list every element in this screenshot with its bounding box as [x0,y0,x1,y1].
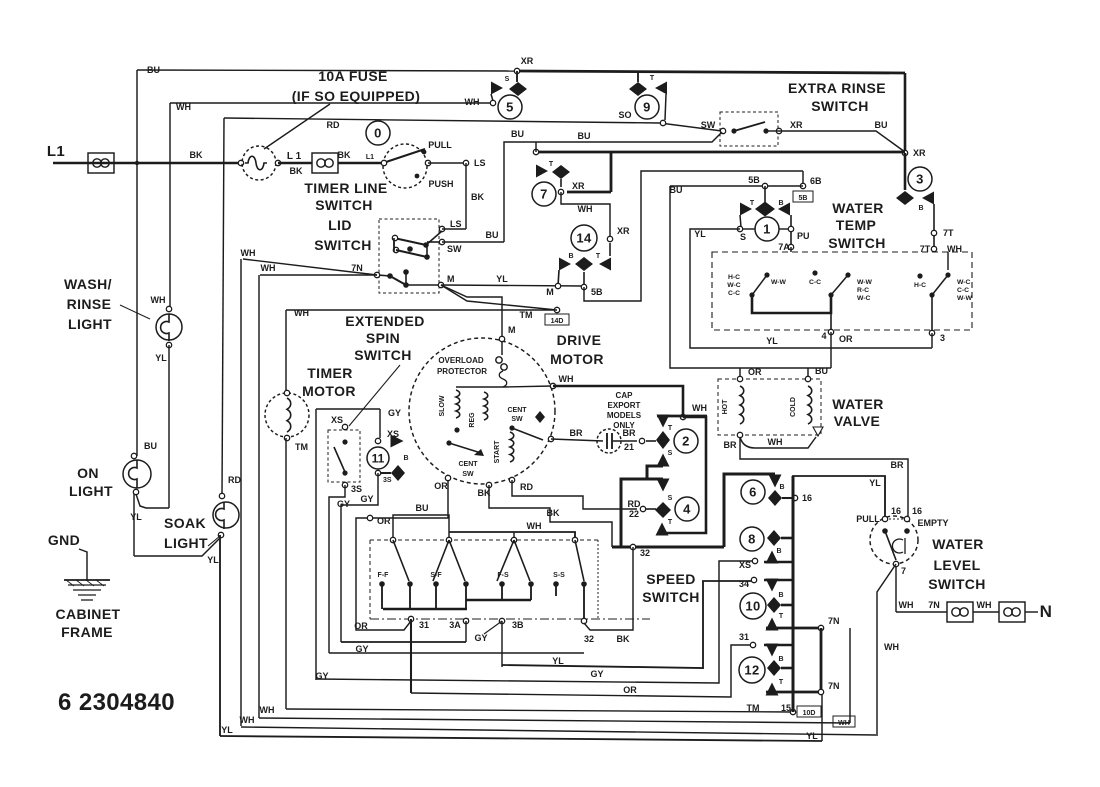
svg-text:T: T [750,200,755,207]
water valve box (dashed) [718,379,821,435]
svg-text:32: 32 [640,548,650,558]
water temp switch box (dashed) [712,252,972,330]
node XR extra rinse [776,128,781,133]
on light node bottom [133,489,138,494]
svg-text:OR: OR [434,481,448,491]
cold coil [808,386,812,424]
cam switch 3 [908,167,932,191]
svg-text:M: M [508,325,516,335]
svg-text:BR: BR [570,428,583,438]
junction L1-BU [135,161,139,165]
node 5B [581,284,586,289]
svg-text:6: 6 [749,485,757,500]
wire cam3 triangle into sw3 [947,252,949,270]
svg-text:PU: PU [797,231,810,241]
wire cam4 to right riser [662,417,706,533]
bus y653 [329,652,584,654]
svg-text:N: N [1040,602,1053,621]
temp switch 2 [845,272,850,277]
overload protector [501,341,503,355]
svg-text:T: T [596,253,601,260]
wire YL across to soak [134,537,221,556]
cam switch 9 [637,73,639,82]
svg-text:YL: YL [806,731,818,741]
bottom bus WH y726 [241,727,876,735]
svg-text:MOTOR: MOTOR [550,351,604,367]
svg-text:XR: XR [913,148,926,158]
lid switch box (dashed) [379,219,439,293]
svg-text:10D: 10D [803,710,816,717]
svg-text:W-W: W-W [957,295,973,302]
svg-text:(IF SO EQUIPPED): (IF SO EQUIPPED) [292,88,421,104]
svg-text:T: T [650,75,655,82]
wire 3B down [501,621,503,667]
svg-text:6B: 6B [810,176,822,186]
bus YL y667 [502,581,754,668]
speed switch top nodes [390,537,395,542]
node XR [902,150,907,155]
svg-text:WH: WH [294,308,309,318]
extra rinse switch box (dashed) [720,112,778,146]
cam switch 12 [739,657,765,683]
label GY diag [484,621,502,634]
node 21 [639,438,644,443]
node 6B [800,183,805,188]
timer line switch node left [381,160,386,165]
speed switch box dashed top [370,539,598,541]
node 7N [374,272,379,277]
temp sw2 to node 4 [830,295,832,332]
svg-text:10: 10 [745,599,760,614]
reg winding [484,392,488,420]
wire to N end [1025,611,1038,613]
svg-text:BK: BK [290,166,303,176]
node XR at cam 5 top [514,68,519,73]
connector N 2 [999,602,1025,622]
wire YL to pull [793,476,885,517]
speed bus bars [383,608,467,611]
terminal 31 [750,642,755,647]
svg-text:8: 8 [748,532,756,547]
svg-text:SPEED: SPEED [646,571,695,587]
svg-text:7N: 7N [928,600,940,610]
hot coil bottom node [737,432,742,437]
node 7N [818,625,823,630]
wire M bus [441,285,584,286]
svg-text:BU: BU [875,120,888,130]
thick cam column [792,476,795,712]
svg-text:RD: RD [628,499,641,509]
svg-text:BU: BU [486,230,499,240]
wire XR top bus [137,70,519,71]
svg-text:15: 15 [781,703,791,713]
wire to switch [338,162,382,165]
svg-text:PULL: PULL [856,514,880,524]
svg-text:W-W: W-W [857,279,873,286]
connector on L1 [88,153,114,173]
svg-text:YL: YL [694,229,706,239]
svg-text:11: 11 [372,451,385,465]
svg-text:R-C: R-C [857,287,869,294]
svg-text:XR: XR [572,181,585,191]
timer motor node bottom [284,435,289,440]
svg-text:START: START [494,440,501,464]
svg-text:SO: SO [618,110,631,120]
svg-text:REG: REG [469,412,476,428]
water level internals [882,528,888,534]
wire XR to right corner [779,131,905,152]
svg-text:WH: WH [884,642,899,652]
svg-text:3S: 3S [351,484,362,494]
circled 0 [366,121,390,145]
thick 32 bus [612,546,724,549]
temp sw3 to node 3 [931,295,933,333]
cam switch 2 [646,440,656,442]
svg-text:9: 9 [643,100,651,115]
svg-text:W-C: W-C [957,279,971,286]
wire BU speed [393,515,449,540]
boxed label WH [833,716,855,727]
wire TM top [286,309,557,311]
wire 7A into box [790,247,792,252]
boxed label 5B [793,191,813,202]
node XR cam7 [558,189,563,194]
node M2 [555,283,560,288]
svg-text:F-F: F-F [378,572,390,579]
svg-text:ONLY: ONLY [613,421,635,430]
wire 7N top [766,627,821,630]
svg-text:OR: OR [839,334,853,344]
svg-text:H-C: H-C [728,274,740,281]
timer motor (dashed circle) [265,393,309,437]
svg-text:WH: WH [692,403,707,413]
wire YL soak light down / bottom bus [219,535,221,736]
wire BU riser to valve [670,186,831,368]
svg-text:SWITCH: SWITCH [828,235,886,251]
svg-text:WH: WH [578,204,593,214]
temp contact H-C [917,273,922,278]
thick line y152 [536,151,905,154]
svg-text:L1: L1 [366,154,374,161]
soak light node bottom [218,532,223,537]
wire 31 down [410,619,412,693]
svg-text:S: S [668,450,673,457]
svg-text:SWITCH: SWITCH [928,576,986,592]
soak light [213,502,239,528]
boxed label 10D [797,706,821,717]
svg-text:T: T [668,519,673,526]
wire WH to cam2 [553,386,683,414]
node 7N 2 [818,689,823,694]
svg-text:WH: WH [240,715,255,725]
wire YL on-light down [133,494,135,556]
svg-text:H-C: H-C [914,282,926,289]
svg-text:GY: GY [590,669,603,679]
node WH motor [550,383,555,388]
wire OR from motor [372,478,448,518]
node XR cam14 [607,236,612,241]
svg-text:SW: SW [462,471,474,478]
wire WW [740,437,816,448]
svg-text:3B: 3B [512,620,524,630]
start winding [510,432,514,462]
node BR [548,436,553,441]
node fuse right [275,160,280,165]
svg-text:GY: GY [388,408,401,418]
svg-text:4: 4 [683,502,691,517]
node fuse left [238,160,243,165]
timer line switch blade [386,149,425,162]
svg-text:3: 3 [916,172,924,187]
svg-text:LIGHT: LIGHT [69,483,113,499]
svg-text:WH: WH [176,102,191,112]
svg-text:S: S [668,495,673,502]
svg-text:C-C: C-C [957,287,969,294]
wire BU on-light [131,453,136,458]
wire GY left riser x316 [315,409,317,680]
svg-text:OVERLOAD: OVERLOAD [438,356,484,365]
svg-text:CENT: CENT [507,407,527,414]
wire RD cam4 [646,508,656,510]
svg-text:3S: 3S [383,477,392,484]
soak pointer [208,536,220,546]
node SW [720,128,725,133]
svg-text:RD: RD [327,120,340,130]
svg-text:OR: OR [748,367,762,377]
svg-text:YL: YL [155,353,167,363]
svg-text:W-C: W-C [727,282,741,289]
wire BR to water level [740,437,908,519]
lid switch internals [439,226,444,231]
svg-text:COLD: COLD [790,397,797,417]
bus GY y681 [316,561,754,683]
wire WH from cam7 [561,192,610,236]
wire cam11 to x341 [341,473,378,642]
svg-text:W-W: W-W [771,279,787,286]
svg-text:MODELS: MODELS [607,411,642,420]
wire WH lower to 7N [260,274,377,276]
timer motor coil [287,398,291,432]
svg-text:31: 31 [419,620,429,630]
svg-text:B: B [918,205,923,212]
svg-text:T: T [668,425,673,432]
svg-text:SWITCH: SWITCH [642,589,700,605]
svg-text:M: M [447,274,455,284]
dash between [889,518,903,520]
wire 6B drop [802,171,804,186]
drive motor (dashed circle) [409,338,555,484]
wire thick to cam3 [904,153,907,190]
wire node4 drop [830,332,832,368]
svg-text:DRIVE: DRIVE [557,332,602,348]
timer motor node top [284,390,289,395]
svg-text:WATER: WATER [832,396,884,412]
wire 3S to x329 [329,485,345,653]
svg-text:7N: 7N [828,616,840,626]
svg-text:SWITCH: SWITCH [811,98,869,114]
cam switch 7 [610,152,613,192]
svg-text:XR: XR [790,120,803,130]
svg-text:LID: LID [328,217,352,233]
svg-text:B: B [776,548,781,555]
wash/rinse light node bottom [166,342,171,347]
svg-text:XR: XR [521,56,534,66]
wire on-light to wash YL join [136,494,169,508]
motor node BK [486,482,491,487]
speed switch bottom dash-dot [370,618,650,620]
svg-text:WH: WH [977,600,992,610]
svg-text:WH: WH [559,374,574,384]
node WH cam2 [680,414,685,419]
node M motor [499,336,504,341]
svg-text:MOTOR: MOTOR [302,383,356,399]
svg-text:SW: SW [447,244,462,254]
node 16 [792,495,797,500]
terminal 34 [751,577,756,582]
svg-text:LIGHT: LIGHT [164,535,208,551]
svg-text:EXTRA RINSE: EXTRA RINSE [788,80,886,96]
svg-text:VALVE: VALVE [834,413,881,429]
cam switch 11 [335,408,380,410]
cent sw bottom [446,440,451,445]
node 22 [640,506,645,511]
svg-text:GND: GND [48,532,80,548]
svg-text:LIGHT: LIGHT [68,316,112,332]
svg-text:16: 16 [912,506,922,516]
svg-text:WH: WH [151,295,166,305]
wire WH upper to 7N [243,259,377,275]
svg-text:T: T [549,161,554,168]
svg-text:TM: TM [295,442,308,452]
svg-text:WH: WH [527,521,542,531]
wire TM down / bus [285,438,287,709]
node 4 [828,329,833,334]
riser node 536 [535,142,537,152]
svg-text:16: 16 [802,493,812,503]
node OR valve [737,376,742,381]
svg-text:4: 4 [821,331,826,341]
connector N 1 [947,602,973,622]
svg-text:PROTECTOR: PROTECTOR [437,367,487,376]
svg-text:XS: XS [739,560,751,570]
wire WH speed [449,532,575,540]
cam10 bottom triangle [766,618,779,631]
svg-text:22: 22 [629,509,639,519]
svg-text:SWITCH: SWITCH [314,237,372,253]
gnd wire [79,549,87,580]
svg-text:OR: OR [623,685,637,695]
svg-text:34: 34 [739,579,749,589]
node YT [931,246,936,251]
svg-text:YL: YL [130,512,142,522]
water valve OR stub [739,368,741,379]
svg-text:YL: YL [869,478,881,488]
cam switch 10 [740,593,766,619]
cam switch 4 [655,502,671,518]
cam4 bottom triangle [656,523,669,536]
svg-text:7A: 7A [778,242,790,252]
svg-text:LEVEL: LEVEL [933,557,980,573]
ext spin pointer [349,365,400,426]
svg-text:BK: BK [190,150,203,160]
svg-text:31: 31 [739,632,749,642]
svg-text:B: B [778,200,783,207]
node 5B top [762,183,767,188]
wire cap to node 21 [613,440,637,442]
svg-text:BU: BU [670,185,683,195]
svg-text:5B: 5B [799,195,808,202]
svg-text:BU: BU [416,503,429,513]
cam switch 14 [571,225,597,251]
node on 152 [533,149,538,154]
wire BK down to lid switch [465,163,467,229]
temp switch 3 [945,272,950,277]
svg-text:BU: BU [147,65,160,75]
svg-text:2: 2 [682,434,690,449]
svg-text:BK: BK [617,634,630,644]
wire 32 from node to speed node [584,547,633,630]
water valve BU stub [807,368,809,379]
svg-text:EXPORT: EXPORT [608,401,641,410]
svg-text:6 2304840: 6 2304840 [58,689,175,716]
svg-text:LS: LS [450,219,462,229]
svg-text:7: 7 [540,187,548,202]
svg-text:EXTENDED: EXTENDED [345,313,424,329]
ext spin box (dashed) [328,430,360,482]
svg-text:XR: XR [617,226,630,236]
cam switch 8 [740,527,764,551]
speed switch contact dots [379,581,385,587]
bus y642 [341,641,466,643]
svg-text:WH: WH [465,97,480,107]
cam switch 5 [516,71,518,82]
svg-text:OR: OR [377,516,391,526]
capacitor cap export [607,433,612,449]
svg-text:PULL: PULL [428,140,452,150]
wash/rinse light [156,314,182,340]
svg-text:BR: BR [724,440,737,450]
svg-text:B: B [778,656,783,663]
svg-text:HOT: HOT [722,399,729,415]
temp contact C-C [812,270,817,275]
wire L1 to connector 2 [278,162,312,165]
slow winding [456,390,460,418]
svg-text:YL: YL [552,656,564,666]
temp thick link [752,297,831,313]
wire cam3 down [933,204,935,252]
boxed label 14D [545,314,569,325]
svg-text:B: B [403,455,408,462]
wire to N [895,566,897,612]
wire RD [512,480,637,509]
temp switch 1 [764,272,769,277]
timer line switch (dashed circle) [383,144,427,188]
wire overload to WH node [456,386,503,388]
svg-text:C-C: C-C [728,290,740,297]
speed bottom nodes [408,616,413,621]
svg-text:RD: RD [520,482,533,492]
svg-text:SWITCH: SWITCH [354,347,412,363]
label 10A FUSE pointer [264,104,330,149]
wire lid LS to BK riser [442,228,466,230]
svg-text:CAP: CAP [616,391,634,400]
svg-text:F-S: F-S [497,572,509,579]
wire cam14 mid leg [583,272,585,285]
svg-text:7: 7 [901,566,906,576]
svg-text:SOAK: SOAK [164,515,206,531]
connector 2 on L1 [312,153,338,173]
svg-text:T: T [779,679,784,686]
